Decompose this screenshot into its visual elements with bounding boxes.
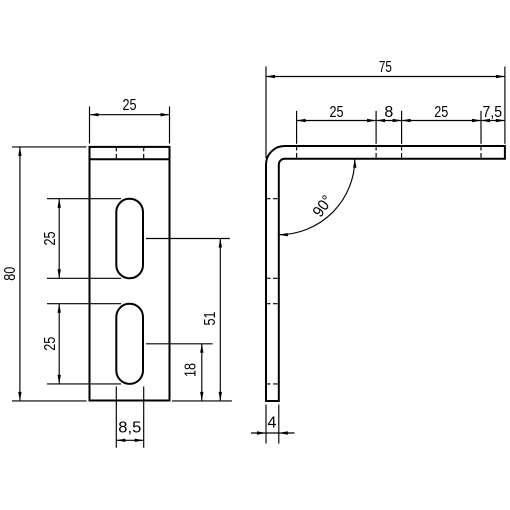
dimension 18: arrows [200,344,203,401]
svg-text:25: 25 [42,231,59,245]
dimension 8,5: extension lines [116,387,143,448]
hidden line slot1 bottom (side view) [266,277,279,279]
dimension 25 slot 1: arrows [58,199,61,279]
hidden slot edge left (front band) [115,147,117,159]
angle arc arrow lower [279,233,288,236]
dimension 25 plate width: extension lines [90,107,170,144]
dimension 25 slot 2: extension lines [47,304,121,384]
hidden line leg slot B end [480,146,482,159]
shared bottom extension line for 51 and 18 [172,400,232,402]
svg-text:25: 25 [330,104,344,121]
hidden line slot2 bottom (side view) [266,383,279,385]
dimension 25 slot 2: arrows [58,304,61,384]
svg-text:18: 18 [183,363,200,377]
hidden line leg slot B start [401,146,403,159]
dimension 75: extension lines [266,67,505,159]
dimension 80 height: arrows [18,147,21,401]
slot 2 (lower obround) [116,304,143,384]
svg-text:25: 25 [123,97,137,114]
hidden line slot1 top (side view) [266,198,279,200]
svg-text:80: 80 [2,267,19,281]
svg-text:8: 8 [384,104,393,121]
dimension 51: extension + dimension lines [146,239,230,401]
dimension 4 thickness: extension lines [251,405,295,444]
svg-text:75: 75 [379,59,392,76]
svg-text:51: 51 [202,311,219,325]
dimension 18: extension + dimension lines [146,344,213,401]
hidden line slot2 top (side view) [266,303,279,305]
svg-text:4: 4 [268,415,277,432]
svg-text:7,5: 7,5 [483,104,503,121]
chain dimension arrows [297,119,505,122]
front view plate outline [90,147,170,401]
hidden line leg slot A end [375,146,377,159]
dimension 75: arrows [266,75,505,78]
dimension 8,5: arrows [116,439,143,442]
bend tangent line front view [90,158,170,160]
svg-text:25: 25 [42,337,59,351]
slot 1 (upper obround) [116,199,143,279]
dimension 4 thickness: arrows [257,431,288,434]
hidden line leg slot A start [296,146,298,159]
hidden slot edge right (front band) [143,147,145,159]
dimension 25 slot 1: extension lines [47,199,121,279]
svg-text:8,5: 8,5 [118,420,141,437]
dimension 51: arrows [219,239,222,401]
angle dimension 90 degree arc [279,159,355,235]
angle arc arrow upper [353,159,356,168]
svg-text:25: 25 [434,104,448,121]
side view L profile [266,146,505,401]
dimension 25 plate width: arrows [90,113,170,116]
dimension 80 height: extension lines [12,147,87,401]
chain dimension line 25/8/25/7,5 [297,111,505,144]
